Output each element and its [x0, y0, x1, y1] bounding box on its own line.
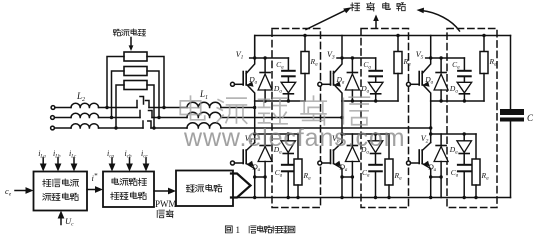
wire phase-A L1 to bridge: [221, 107, 255, 109]
caption 图1: [225, 225, 240, 235]
block 驱动电路 box: [176, 171, 233, 207]
label V5 (leg V5): [416, 50, 424, 61]
diode D freewheel of V3 (leg V3): [345, 56, 359, 102]
diode D freewheel of V5 (leg V5): [434, 56, 448, 102]
wire collector bus (leg V2): [431, 133, 476, 135]
label i_cc: [141, 149, 148, 160]
node R limiting 3 left junction: [114, 126, 117, 129]
label c_e input: [5, 186, 12, 198]
capacitor C dc-link: [500, 109, 524, 122]
label i_cb: [125, 149, 132, 160]
node R limiting 2 left junction: [110, 116, 113, 119]
wire collector node (leg V5): [426, 57, 465, 59]
wire DC rail right drop top: [510, 36, 512, 110]
wire phase-B terminal to L2: [54, 117, 71, 119]
label PWM: [155, 199, 177, 209]
resistor R limiting 1: [124, 52, 147, 61]
resistor R snubber of V6 (leg V6): [385, 134, 393, 199]
label D freewheel (leg V4): [251, 163, 260, 174]
label i* reference: [92, 172, 98, 183]
arrow 限流电阻 pointer: [129, 38, 134, 52]
snubber dashed box 3: [447, 29, 497, 208]
arrow i_cb into block2: [126, 158, 133, 172]
arrow i_ca into block2: [109, 158, 116, 172]
label 限流电阻: [113, 29, 145, 36]
resistor R limiting 2: [124, 67, 147, 76]
block 指令电流运算电路 box: [34, 172, 88, 211]
label C snubber (leg V4): [275, 168, 283, 179]
wire emitter bus (leg V3): [342, 100, 398, 102]
label D freewheel (leg V1): [248, 75, 257, 86]
wire positive DC rail: [255, 36, 511, 59]
diode D freewheel of V1 (leg V1): [258, 56, 272, 102]
wire phase-A switch to L1: [149, 107, 187, 109]
wire phase-C switch to L1: [151, 127, 187, 129]
label C snubber (leg V3): [363, 60, 371, 71]
wire R limiting 2 right lead: [147, 71, 159, 118]
label i_La: [38, 149, 46, 160]
resistor R snubber of V3 (leg V3): [394, 34, 402, 101]
wire negative DC rail: [237, 197, 511, 199]
resistor R snubber of V5 (leg V5): [480, 34, 488, 101]
diode D snubber of V3 (leg V3): [368, 77, 383, 102]
node phase-C input terminal: [51, 126, 55, 130]
svg-text:C: C: [527, 113, 534, 123]
label i_Lc: [69, 149, 77, 160]
inductor L1 phase-C coil: [187, 123, 221, 128]
label C snubber (leg V6): [362, 168, 370, 179]
wire phase-B L1 to bridge: [221, 117, 342, 119]
svg-text:www.elecfans.com: www.elecfans.com: [183, 124, 405, 152]
label D snubber (leg V4): [273, 145, 282, 156]
wire emitter bus (leg V1): [255, 100, 305, 102]
wire phase-C L2 to switch: [99, 127, 144, 129]
inductor L2 phase-C coil: [71, 124, 99, 128]
wire phase-B switch to L1: [152, 117, 187, 119]
node phase-C bridge junction: [429, 126, 432, 129]
svg-text:PWM: PWM: [155, 199, 177, 209]
label 缓冲电路: [351, 2, 406, 11]
capacitor C snubber of V6 (leg V6): [369, 165, 382, 199]
label U_c: [65, 216, 74, 228]
wire emitter bus (leg V4): [253, 175, 265, 199]
label D freewheel (leg V5): [424, 75, 433, 86]
diode D snubber of V5 (leg V5): [457, 77, 472, 102]
snubber dashed box 1: [272, 29, 321, 208]
diode D freewheel of V6 (leg V6): [345, 134, 359, 179]
resistor R snubber of V4 (leg V4): [294, 134, 302, 199]
label D snubber (leg V6): [360, 145, 369, 156]
igbt V5 (leg V5): [407, 36, 433, 102]
arrow snubber box1 to label: [306, 7, 352, 29]
node R limiting 1 left junction: [105, 106, 108, 109]
wire R limiting 3 right lead: [147, 85, 154, 128]
switch K phase-B contacts: [140, 111, 152, 118]
node phase-A bridge junction: [253, 106, 256, 109]
block 电流跟踪控制电路 text: [111, 178, 147, 200]
label i_Lb: [53, 149, 61, 160]
capacitor C snubber of V3 (leg V3): [369, 58, 382, 76]
arrow snubber box2 to label: [373, 15, 379, 29]
node phase-A input terminal: [51, 106, 55, 110]
label D freewheel (leg V6): [339, 163, 348, 174]
resistor R snubber of V2 (leg V2): [472, 134, 480, 199]
label V1 (leg V1): [236, 50, 244, 61]
arrow drive output chevron: [231, 174, 251, 198]
node phase-B bridge junction: [340, 116, 343, 119]
igbt V3 (leg V3): [318, 36, 344, 102]
diode D freewheel of V4 (leg V4): [258, 134, 272, 179]
label C snubber (leg V2): [451, 168, 459, 179]
wire R limiting 1 right lead: [147, 57, 164, 108]
node R limiting 1 right junction: [162, 106, 165, 109]
block 电流跟踪控制电路 box: [103, 172, 154, 208]
inductor L2 phase-A coil: [71, 103, 99, 107]
label i_ca: [107, 149, 114, 160]
arrow block1 to block2: [87, 186, 103, 193]
inductor L1 phase-B coil: [187, 112, 221, 117]
label R snubber (leg V6): [394, 171, 403, 182]
label D snubber (leg V1): [273, 84, 282, 95]
label D freewheel (leg V2): [427, 163, 436, 174]
label V3 (leg V3): [327, 50, 335, 61]
capacitor C snubber of V1 (leg V1): [282, 58, 295, 76]
arrow snubber box3 to label: [417, 8, 460, 31]
capacitor C snubber of V2 (leg V2): [458, 165, 471, 199]
inductor L2 label: [76, 91, 85, 103]
watermark elecfans: [180, 96, 405, 152]
label C snubber (leg V5): [452, 60, 460, 71]
arrow block2 to block3: [154, 188, 176, 195]
diode D snubber of V2 (leg V2): [457, 132, 472, 164]
wire emitter bus (leg V5): [431, 100, 484, 102]
inductor L1 label: [199, 89, 208, 101]
block 驱动电路 text: [186, 184, 222, 192]
label R snubber (leg V3): [403, 57, 412, 68]
diode D freewheel of V2 (leg V2): [434, 134, 448, 179]
wire midpoint vertical leg V5/V2: [430, 101, 432, 134]
igbt V6 (leg V6): [318, 132, 344, 177]
inductor L2 phase-B coil: [71, 113, 99, 117]
switch K phase-C contacts: [143, 121, 151, 128]
wire phase-A L2 to switch: [99, 107, 138, 109]
capacitor C snubber of V4 (leg V4): [282, 165, 295, 199]
label V2 (leg V2): [421, 134, 429, 145]
label 信号: [157, 210, 173, 218]
wire phase-B L2 to switch: [99, 117, 141, 119]
node phase-B input terminal: [51, 116, 55, 120]
wire phase-A terminal to L2: [55, 107, 71, 109]
arrow U_c into block1: [58, 211, 65, 225]
label D snubber (leg V5): [449, 84, 458, 95]
node R limiting 3 right junction: [152, 126, 155, 129]
diode D snubber of V4 (leg V4): [281, 132, 296, 164]
block 指令电流运算电路 text: [43, 179, 79, 201]
wire emitter bus (leg V2): [429, 175, 441, 199]
resistor R limiting 3: [124, 81, 147, 90]
wire midpoint vertical leg V1/V4: [254, 101, 256, 134]
snubber dashed box 2: [361, 29, 409, 208]
label V4 (leg V4): [245, 134, 253, 145]
wire R limiting 3 left lead: [116, 85, 124, 128]
label R snubber (leg V4): [303, 171, 312, 182]
arrow c_e into block1: [15, 187, 34, 194]
capacitor C label: [527, 113, 534, 123]
arrow i_La into block1: [40, 158, 47, 172]
wire collector node (leg V1): [250, 57, 289, 59]
label D freewheel (leg V3): [336, 75, 345, 86]
igbt V4 (leg V4): [231, 132, 257, 177]
resistor R snubber of V1 (leg V1): [301, 34, 309, 101]
label R snubber (leg V2): [481, 171, 490, 182]
node R limiting 2 right junction: [157, 116, 160, 119]
svg-text:1: 1: [236, 225, 241, 235]
label V6 (leg V6): [332, 134, 340, 145]
diode D snubber of V1 (leg V1): [281, 77, 296, 102]
wire collector bus (leg V6): [342, 133, 389, 135]
wire DC rail right drop bottom: [510, 122, 512, 198]
caption 主电路结构图: [249, 226, 295, 234]
label D snubber (leg V3): [360, 84, 369, 95]
wire collector node (leg V3): [337, 57, 376, 59]
igbt V1 (leg V1): [231, 36, 257, 102]
wire R limiting 2 left lead: [112, 71, 125, 118]
diode D snubber of V6 (leg V6): [368, 132, 383, 164]
inductor L1 phase-A coil: [187, 102, 221, 107]
wire phase-C L1 to bridge: [221, 127, 431, 129]
igbt V2 (leg V2): [407, 132, 433, 177]
capacitor C snubber of V5 (leg V5): [458, 58, 471, 76]
switch K phase-A contacts: [137, 97, 149, 108]
wire midpoint vertical leg V3/V6: [341, 101, 343, 134]
wire R limiting 1 left lead: [107, 57, 124, 108]
arrow i_Lb into block1: [55, 158, 62, 172]
wire emitter bus (leg V6): [340, 175, 352, 199]
label R snubber (leg V5): [489, 57, 498, 68]
arrow i_cc into block2: [143, 158, 150, 172]
label D snubber (leg V2): [449, 145, 458, 156]
arrow i_Lc into block1: [71, 158, 78, 172]
label C snubber (leg V1): [276, 60, 284, 71]
label R snubber (leg V1): [310, 57, 319, 68]
wire phase-C terminal to L2: [54, 127, 71, 129]
wire collector bus (leg V4): [255, 133, 298, 135]
